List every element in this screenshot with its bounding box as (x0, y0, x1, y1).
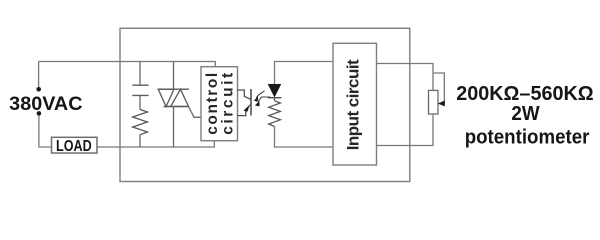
wire: source lower lead down to LOAD (39, 116, 52, 147)
node: 380VAC lower terminal dot (37, 111, 42, 116)
capacitor C1 plates (132, 85, 148, 95)
wire: top AC line from source to control circuit (39, 62, 216, 67)
svg-text:200KΩ–560KΩ: 200KΩ–560KΩ (456, 83, 594, 105)
svg-text:2W: 2W (511, 103, 539, 125)
triac Q1 gate wire to control circuit (189, 107, 202, 118)
svg-text:circuit: circuit (220, 73, 237, 135)
LED D1 triangle (268, 84, 281, 97)
resistor R2 bottom lead / wire to input circuit (275, 127, 334, 148)
light arrow 1 (LED to phototransistor) (256, 91, 264, 98)
triac Q1 top bar (158, 88, 190, 90)
wire: source upper lead (38, 62, 40, 88)
LED D1 branch top wire to input circuit (275, 62, 334, 85)
triac Q1 right triangle (171, 89, 189, 106)
resistor R1 bottom lead (139, 135, 141, 147)
LED to resistor lead (274, 98, 276, 101)
capacitor to resistor lead (139, 96, 141, 110)
resistor R2 (LED series zigzag) (269, 101, 281, 127)
potentiometer RP body (429, 90, 439, 114)
phototransistor emitter arrowhead (244, 106, 249, 111)
svg-text:380VAC: 380VAC (9, 94, 83, 115)
load box (52, 137, 98, 153)
light arrow 2 (LED to phototransistor) (258, 97, 271, 102)
control circuit box (201, 67, 238, 141)
wire: input circuit to potentiometer top (377, 64, 434, 91)
potentiometer wiper arrowhead (438, 101, 444, 106)
svg-text:potentiometer: potentiometer (465, 126, 590, 148)
phototransistor emitter wire (238, 104, 252, 115)
potentiometer wiper wire (433, 73, 444, 104)
svg-text:Input circuit: Input circuit (344, 59, 363, 150)
triac Q1 left triangle (158, 89, 174, 106)
wire: bottom AC line from LOAD to control circuit (97, 141, 214, 147)
phototransistor collector wire (238, 90, 252, 100)
svg-text:control: control (204, 73, 221, 135)
phototransistor base bar (250, 89, 252, 116)
enclosure rectangle (SSR body) (120, 28, 410, 181)
wire: potentiometer bottom to input circuit (377, 114, 434, 146)
node: 380VAC upper terminal dot (36, 87, 41, 92)
triac Q1 top lead (173, 62, 175, 90)
svg-text:LOAD: LOAD (56, 138, 92, 155)
triac Q1 bottom lead (173, 107, 175, 148)
LED D1 cathode bar (268, 97, 282, 99)
capacitor C1 top lead (snubber branch) (139, 62, 141, 85)
resistor R1 (snubber zigzag) (133, 109, 148, 134)
triac Q1 bottom bar (164, 106, 189, 108)
input circuit box (333, 43, 377, 165)
